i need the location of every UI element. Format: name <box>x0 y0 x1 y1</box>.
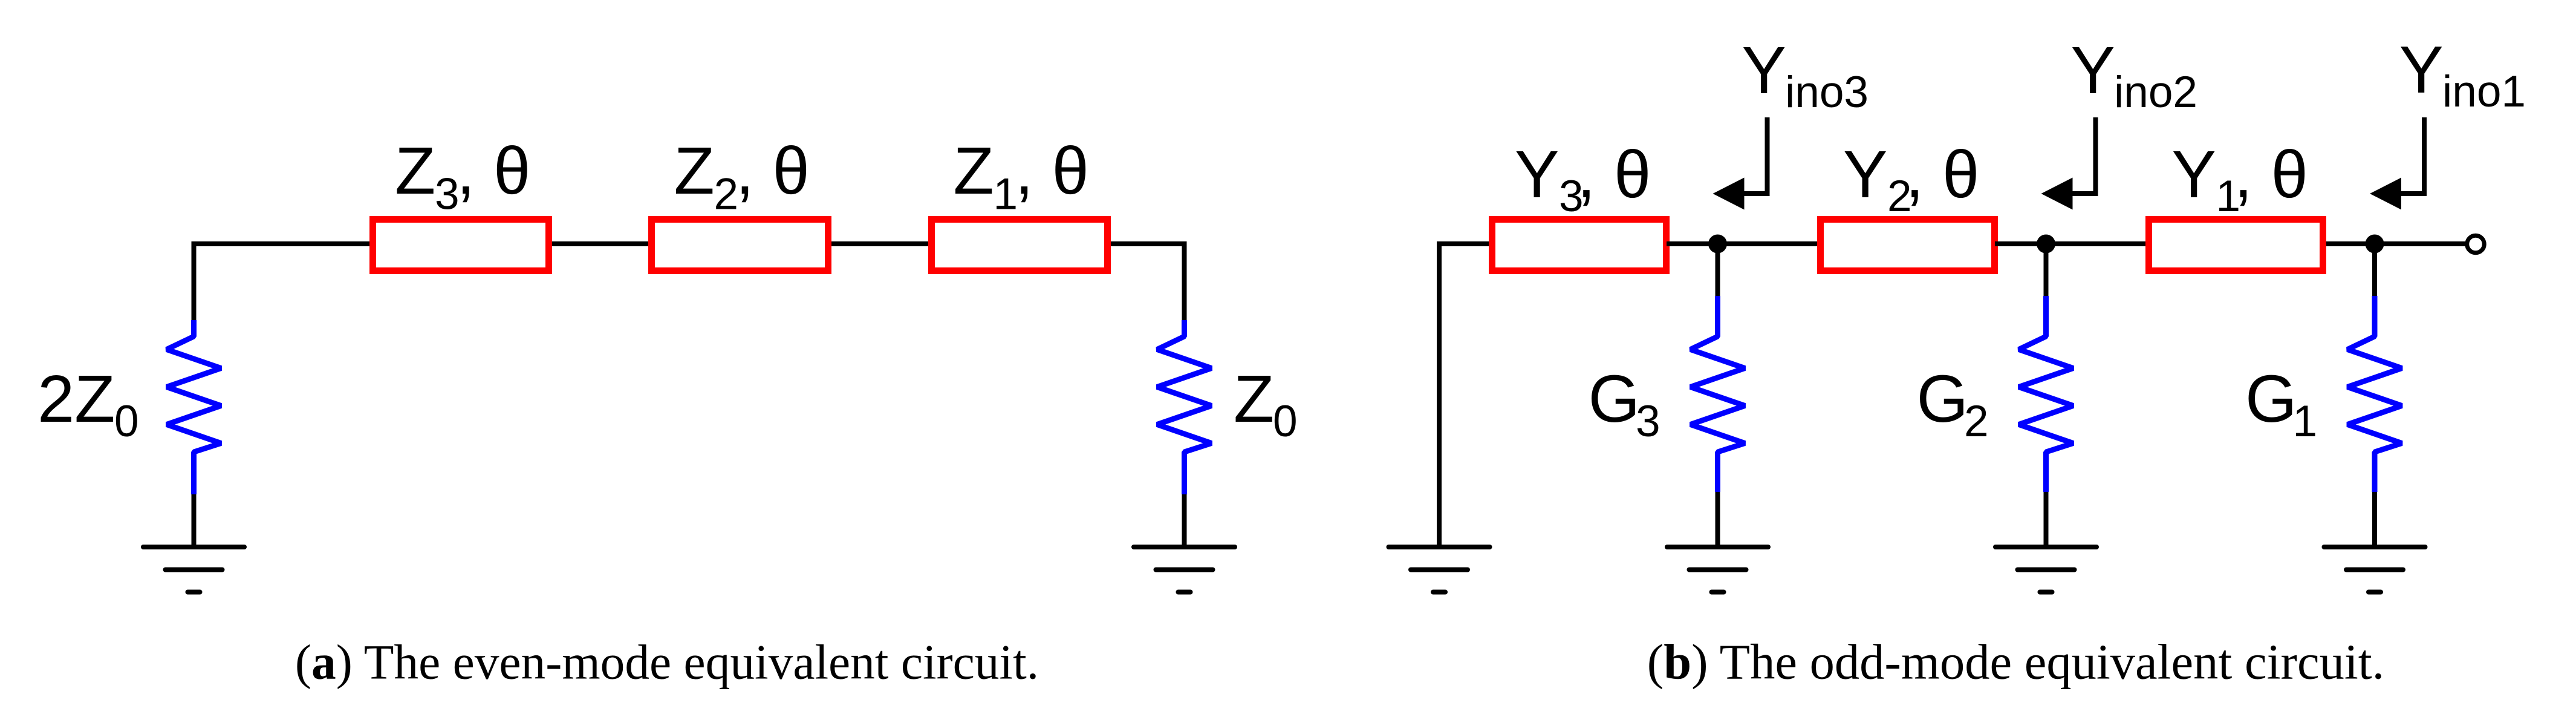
resistor G2 (blue zigzag) <box>2019 296 2073 492</box>
transmission line Y3 (red box) <box>1492 220 1667 271</box>
transmission line Y2 (red box) <box>1821 220 1995 271</box>
node 1 (junction dot) <box>2366 235 2384 254</box>
transmission line Y1 (red box) <box>2149 220 2323 271</box>
resistor 2Z0 (blue zigzag) <box>167 320 221 494</box>
ground G1 <box>2324 547 2425 592</box>
node 3 (junction dot) <box>1708 235 1727 254</box>
ground (a) left <box>143 547 244 592</box>
wire: G2 to ground <box>2044 492 2049 547</box>
wire: node 3 to G3 <box>1716 244 1720 296</box>
transmission line Z2 (red box) <box>652 220 828 271</box>
arrow Yino3 (admittance looking into node 3) <box>1713 117 1768 210</box>
resistor G1 (blue zigzag) <box>2347 296 2402 492</box>
wire: bus Y2 to Y1 through node 2 <box>1995 241 2148 246</box>
wire: bus Y3 to Y2 through node 3 <box>1667 241 1820 246</box>
node 2 (junction dot) <box>2037 235 2055 254</box>
transmission line Z3 (red box) <box>373 220 549 271</box>
wire: node 2 to G2 <box>2044 244 2049 296</box>
wire: right corner of bus (a) to top of Z0 <box>1108 244 1185 320</box>
ground G3 <box>1667 547 1768 592</box>
svg-text:(b) The odd-mode equivalent ci: (b) The odd-mode equivalent circuit. <box>1647 634 2385 690</box>
wire: bus segment between Z2 and Z1 <box>828 241 931 246</box>
wire: G1 to ground <box>2372 492 2377 547</box>
svg-text:(a) The even-mode equivalent c: (a) The even-mode equivalent circuit. <box>295 635 1039 690</box>
wire: 2Z0 to ground <box>192 494 197 547</box>
arrow Yino1 (admittance looking into node 1) <box>2370 117 2424 210</box>
arrow Yino2 (admittance looking into node 2) <box>2041 117 2096 210</box>
svg-text:Y2, θ: Y2, θ <box>1843 137 1979 221</box>
svg-text:Z3, θ: Z3, θ <box>395 134 530 219</box>
wire: left corner of bus (a) to top of 2Z0 <box>194 244 373 320</box>
ground (b) far left <box>1389 547 1490 592</box>
wire: G3 to ground <box>1716 492 1720 547</box>
resistor Z0 (blue zigzag) <box>1157 320 1212 494</box>
svg-text:Z2, θ: Z2, θ <box>674 134 810 219</box>
ground G2 <box>1995 547 2096 592</box>
ground (a) right <box>1134 547 1235 592</box>
wire: left corner of bus (b) down to ground <box>1439 244 1492 547</box>
wire: bus Y1 to output terminal through node 1 <box>2326 241 2465 246</box>
wire: Z0 to ground <box>1182 494 1187 547</box>
wire: bus segment between Z3 and Z2 <box>549 241 651 246</box>
wire: node 1 to G1 <box>2372 244 2377 296</box>
svg-text:Y1, θ: Y1, θ <box>2172 137 2308 221</box>
open terminal (port) <box>2467 235 2485 253</box>
svg-text:Z1, θ: Z1, θ <box>954 134 1089 219</box>
transmission line Z1 (red box) <box>932 220 1108 271</box>
svg-text:Y3, θ: Y3, θ <box>1515 137 1651 221</box>
resistor G3 (blue zigzag) <box>1691 296 1745 492</box>
